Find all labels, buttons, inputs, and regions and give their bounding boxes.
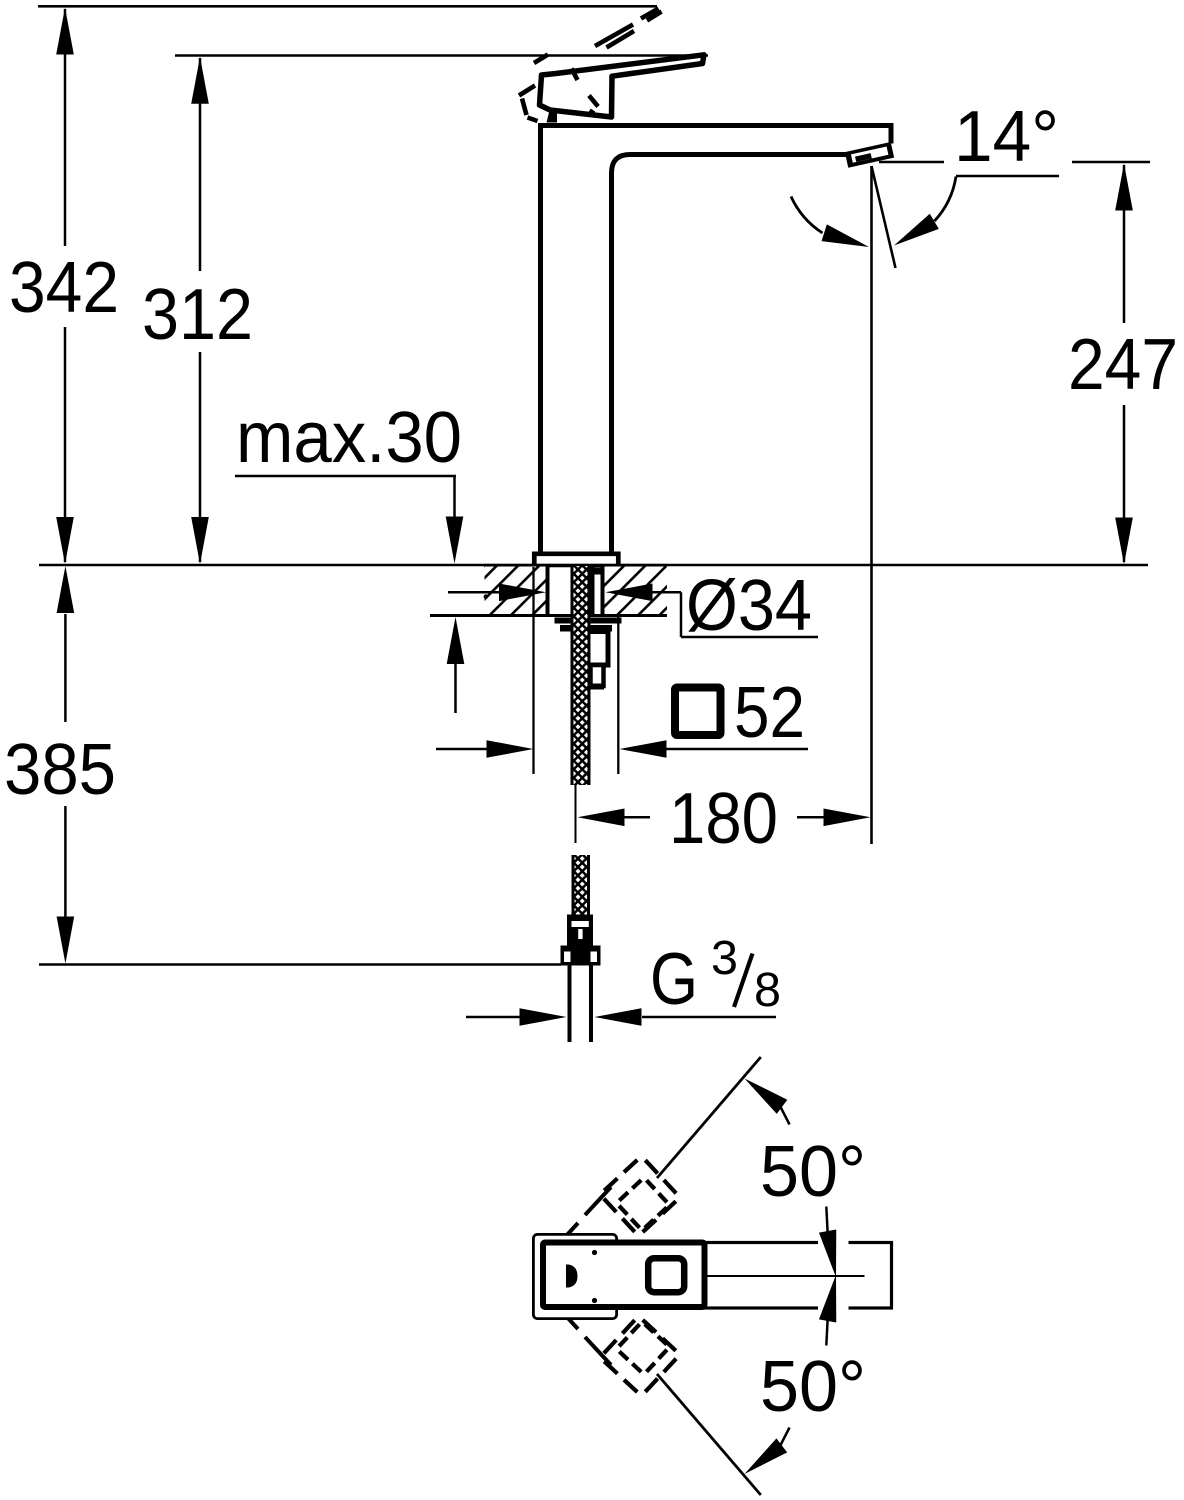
svg-text:385: 385 xyxy=(4,729,116,810)
dimension 247 line xyxy=(1123,165,1126,323)
dimension 312 line xyxy=(199,58,202,271)
mounting screw housing xyxy=(587,632,609,666)
mounting screw lower stub xyxy=(591,665,604,686)
leader max.30 xyxy=(235,475,456,478)
svg-text:52: 52 xyxy=(734,672,805,753)
top view escutcheon xyxy=(533,1234,616,1318)
dimension Ø34 xyxy=(448,591,500,594)
top view dashed squares upper xyxy=(604,1160,676,1232)
hose connector collar xyxy=(567,915,593,946)
top view dashed lever direction upper xyxy=(585,1187,611,1215)
counter deck hatched section xyxy=(484,564,667,567)
hose centerline stub xyxy=(575,785,577,843)
deck thickness arrow below counter xyxy=(447,617,465,664)
extension lines for 52 xyxy=(532,567,534,774)
base flange xyxy=(534,554,618,565)
braided hose upper xyxy=(574,566,588,785)
dimension 180 xyxy=(578,809,625,827)
handle foot xyxy=(547,111,558,123)
aerator xyxy=(845,142,894,168)
dimension 342 line xyxy=(64,9,67,246)
14 deg arc left xyxy=(791,197,823,234)
braided hose lower xyxy=(575,855,588,915)
top reference line (342) xyxy=(38,5,657,8)
spray axis vertical reference line xyxy=(870,166,873,844)
mounting pull rod channel xyxy=(591,566,595,614)
spray direction 14 deg line xyxy=(872,166,896,268)
top view 50 deg diagonal upper xyxy=(657,1057,761,1178)
dimension G3/8 arrows xyxy=(466,1016,520,1019)
14 deg arc right xyxy=(935,177,957,222)
hose connector nut xyxy=(561,946,601,966)
faucet mounting shank left wall xyxy=(546,566,550,615)
top view lever end D xyxy=(566,1265,578,1288)
G3/8 pipe xyxy=(568,966,572,1043)
top view lever knob xyxy=(648,1258,684,1292)
reference line (312) xyxy=(175,54,708,57)
mounting washer xyxy=(555,618,622,624)
top view 50 deg diagonal lower xyxy=(657,1374,761,1495)
svg-text:3: 3 xyxy=(711,931,738,985)
svg-text:8: 8 xyxy=(754,963,781,1017)
counter deck bottom line xyxy=(430,614,667,617)
svg-text:50°: 50° xyxy=(760,1346,866,1427)
stray dot xyxy=(484,594,488,598)
bottom reference line (385) xyxy=(39,963,561,966)
square symbol 52 xyxy=(675,688,721,736)
svg-text:50°: 50° xyxy=(760,1131,866,1212)
faucet outer outline xyxy=(541,126,892,554)
top view dashed squares lower xyxy=(604,1320,676,1392)
counter deck top line xyxy=(39,564,1148,567)
svg-text:342: 342 xyxy=(9,247,119,328)
svg-text:247: 247 xyxy=(1068,324,1178,405)
50 deg upper angle arrows xyxy=(739,1071,787,1113)
14 deg underline xyxy=(956,175,1059,178)
handle dashed rotated body xyxy=(519,86,598,122)
svg-text:G: G xyxy=(650,939,698,1020)
svg-text:180: 180 xyxy=(669,778,778,859)
dimension 385 line xyxy=(64,614,67,722)
handle dashed raised lever xyxy=(534,9,662,81)
svg-text:312: 312 xyxy=(142,274,253,355)
top view dots xyxy=(592,1250,597,1255)
247 top reference segments xyxy=(879,161,944,164)
top view dashed lever direction lower xyxy=(585,1337,611,1365)
50 deg lower angle arrows xyxy=(739,1438,787,1481)
mounting nut xyxy=(560,625,612,632)
top view spout xyxy=(700,1243,892,1309)
svg-text:max.30: max.30 xyxy=(236,397,462,478)
dimension 52 xyxy=(436,748,487,751)
svg-text:Ø34: Ø34 xyxy=(686,565,812,646)
svg-text:14°: 14° xyxy=(954,96,1059,177)
top view center line xyxy=(707,1275,865,1277)
faucet inner outline xyxy=(612,155,847,554)
handle body and lever xyxy=(540,55,705,117)
top view handle body xyxy=(543,1243,705,1308)
